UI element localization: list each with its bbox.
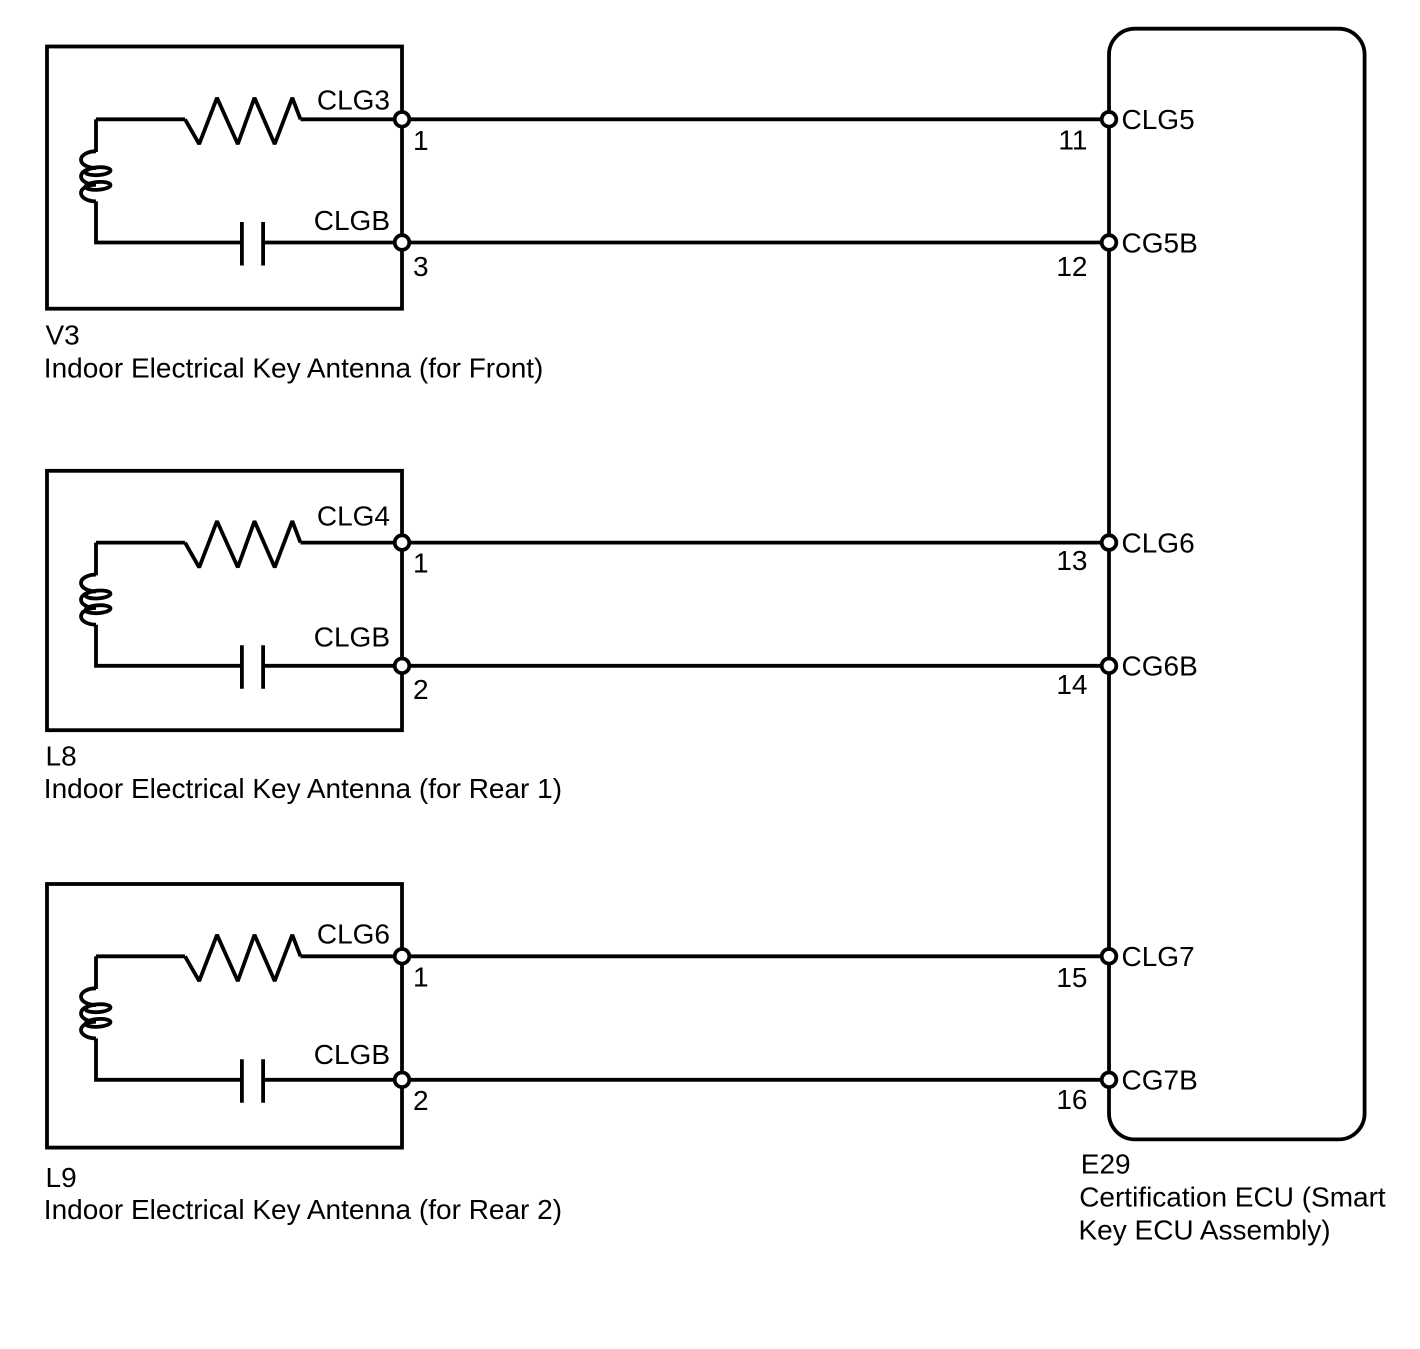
node L9 pin 2 [395, 1073, 410, 1088]
svg-text:Key ECU Assembly): Key ECU Assembly) [1079, 1215, 1331, 1246]
wire top row V3 [96, 117, 402, 121]
node E29 pin 11 [1102, 112, 1117, 127]
svg-text:12: 12 [1056, 251, 1087, 282]
wire L8 coil to bottom [96, 625, 240, 666]
inductor L8 coil [81, 575, 96, 625]
svg-text:CLGB: CLGB [314, 205, 390, 236]
wire top row L8 [96, 541, 402, 545]
capacitor V3 [242, 222, 263, 266]
antenna L8 box [47, 471, 402, 730]
svg-text:3: 3 [413, 251, 429, 282]
svg-text:2: 2 [413, 674, 429, 705]
inductor L9 coil [81, 988, 96, 1038]
inductor V3 coil [81, 151, 96, 201]
capacitor L9 [242, 1059, 263, 1103]
svg-text:V3: V3 [46, 319, 80, 350]
svg-text:CLG6: CLG6 [317, 919, 390, 950]
svg-text:Indoor Electrical Key Antenna: Indoor Electrical Key Antenna (for Rear … [44, 773, 562, 804]
svg-text:CLGB: CLGB [314, 621, 390, 652]
svg-text:1: 1 [413, 548, 429, 579]
svg-text:2: 2 [413, 1085, 429, 1116]
resistor V3 [185, 98, 301, 144]
svg-text:1: 1 [413, 962, 429, 993]
resistor L9 [185, 935, 301, 981]
svg-text:CLG7: CLG7 [1122, 941, 1195, 972]
wire row2 to ECU [402, 241, 1109, 245]
svg-text:CG5B: CG5B [1122, 227, 1198, 258]
node E29 pin 15 [1102, 949, 1117, 964]
wire row4 to ECU [402, 664, 1109, 668]
svg-text:11: 11 [1058, 125, 1087, 156]
wire row1 to ECU [402, 117, 1109, 121]
svg-text:16: 16 [1056, 1084, 1087, 1115]
svg-text:CLG5: CLG5 [1122, 104, 1195, 135]
wire left vertical L8 [94, 543, 98, 576]
wire V3 capacitor to node [265, 241, 402, 245]
wire row3 to ECU [402, 541, 1109, 545]
node L8 pin 1 [395, 535, 410, 550]
svg-text:14: 14 [1056, 669, 1087, 700]
svg-text:L8: L8 [46, 741, 77, 772]
wire left vertical L9 [94, 956, 98, 989]
svg-text:CLG6: CLG6 [1122, 527, 1195, 558]
wire row5 to ECU [402, 954, 1109, 958]
node E29 pin 16 [1102, 1073, 1117, 1088]
svg-text:L9: L9 [46, 1162, 77, 1193]
svg-text:13: 13 [1056, 545, 1087, 576]
node V3 pin 1 [395, 112, 410, 127]
resistor L8 [185, 521, 301, 567]
node E29 pin 12 [1102, 235, 1117, 250]
wire L9 capacitor to node [265, 1078, 402, 1082]
svg-text:E29: E29 [1081, 1149, 1131, 1180]
node E29 pin 14 [1102, 659, 1117, 674]
node E29 pin 13 [1102, 535, 1117, 550]
wire left vertical V3 [94, 119, 98, 152]
svg-text:1: 1 [413, 125, 429, 156]
wire row6 to ECU [402, 1078, 1109, 1082]
svg-text:CLG4: CLG4 [317, 501, 390, 532]
svg-text:Indoor Electrical Key Antenna: Indoor Electrical Key Antenna (for Front… [44, 352, 544, 383]
antenna V3 box [47, 47, 402, 309]
node V3 pin 3 [395, 235, 410, 250]
svg-text:CG6B: CG6B [1122, 651, 1198, 682]
wire top row L9 [96, 954, 402, 958]
ECU E29 box [1109, 29, 1365, 1140]
svg-text:Certification ECU (Smart: Certification ECU (Smart [1079, 1181, 1386, 1212]
svg-text:15: 15 [1056, 962, 1087, 993]
wire V3 coil to bottom [96, 201, 240, 242]
capacitor L8 [242, 645, 263, 689]
svg-text:CG7B: CG7B [1122, 1065, 1198, 1096]
node L8 pin 2 [395, 659, 410, 674]
antenna L9 box [47, 884, 402, 1148]
svg-text:Indoor Electrical Key Antenna: Indoor Electrical Key Antenna (for Rear … [44, 1194, 562, 1225]
svg-text:CLG3: CLG3 [317, 85, 390, 116]
wire L9 coil to bottom [96, 1038, 240, 1079]
wire L8 capacitor to node [265, 664, 402, 668]
node L9 pin 1 [395, 949, 410, 964]
svg-text:CLGB: CLGB [314, 1039, 390, 1070]
